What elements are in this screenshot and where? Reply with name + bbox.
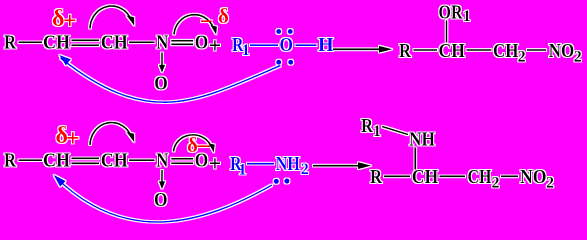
curved arrow over C=C row2	[90, 123, 131, 145]
svg-text:NH: NH	[276, 153, 300, 175]
svg-text:2: 2	[492, 175, 500, 192]
svg-text:CH: CH	[101, 32, 128, 54]
svg-text:NO: NO	[520, 166, 547, 188]
wire CH2-NO2 bond	[527, 49, 546, 51]
svg-text:+: +	[66, 126, 80, 152]
wire R-CH bond	[19, 159, 43, 161]
svg-text:N: N	[156, 150, 168, 172]
wire N=O double bond	[171, 158, 193, 160]
svg-text:2: 2	[574, 49, 582, 66]
svg-text:R: R	[399, 40, 411, 62]
wire NH-CH vertical bond	[414, 148, 416, 170]
svg-text:2: 2	[546, 175, 554, 192]
svg-text:+: +	[209, 33, 222, 58]
svg-text:CH: CH	[43, 150, 70, 172]
svg-text:O: O	[280, 34, 294, 56]
svg-text:1: 1	[242, 42, 250, 59]
wire R1-N bond	[247, 163, 274, 165]
svg-text:δ: δ	[187, 133, 198, 157]
arrow N to lower O	[161, 53, 163, 68]
reaction arrow row1	[333, 48, 381, 50]
svg-text:N: N	[156, 32, 168, 54]
svg-text:CH: CH	[468, 166, 492, 188]
svg-text:δ: δ	[218, 4, 229, 28]
lone pair dots below N	[274, 179, 279, 184]
wire R-CH bond	[19, 41, 43, 43]
wire O-H bond	[296, 44, 317, 46]
curved arrow over N=O row1	[174, 15, 213, 35]
svg-text:+: +	[209, 151, 222, 176]
minus-delta label row1	[201, 20, 212, 22]
svg-text:OR: OR	[439, 2, 463, 24]
wire CH-N bond	[129, 41, 155, 43]
wire CH-CH2 bond	[440, 175, 466, 177]
delta+ label row2	[56, 123, 80, 152]
svg-text:NO: NO	[549, 40, 575, 62]
delta+ label row1	[52, 6, 77, 35]
svg-text:1: 1	[373, 123, 381, 140]
long curved arrow O to beta C row1	[61, 58, 281, 102]
svg-text:R: R	[4, 32, 16, 54]
wire CH-CH2 bond	[467, 49, 492, 51]
svg-text:R: R	[361, 115, 373, 137]
svg-text:R: R	[370, 166, 382, 188]
wire N=O double bond	[171, 40, 193, 42]
svg-text:+: +	[63, 9, 77, 35]
lone pair dots above O	[276, 29, 281, 34]
lone pair dots below O	[276, 60, 281, 65]
wire R-CH bond	[414, 49, 438, 51]
wire CH2-NO2 bond	[501, 175, 518, 177]
svg-text:H: H	[318, 34, 334, 56]
wire C=C double bond	[72, 39, 100, 41]
svg-text:2: 2	[301, 161, 309, 178]
svg-text:O: O	[154, 189, 168, 211]
wire CH-N bond	[129, 159, 155, 161]
curved arrow over N=O row2	[174, 135, 211, 152]
svg-text:2: 2	[518, 49, 526, 66]
reaction arrow row2	[313, 165, 360, 167]
svg-text:CH: CH	[412, 166, 439, 188]
svg-text:CH: CH	[439, 40, 466, 62]
wire R-CH bond	[384, 175, 410, 177]
wire C=C double bond	[72, 157, 100, 159]
svg-text:1: 1	[238, 162, 246, 179]
svg-text:1: 1	[463, 8, 471, 25]
svg-text:CH: CH	[101, 150, 128, 172]
svg-text:CH: CH	[493, 40, 519, 62]
svg-text:NH: NH	[409, 129, 435, 151]
long curved arrow N to beta C row2	[57, 179, 272, 223]
svg-text:CH: CH	[43, 32, 70, 54]
wire O-CH vertical bond	[446, 21, 448, 43]
wire R1-O bond	[250, 44, 278, 46]
svg-text:O: O	[195, 32, 209, 54]
svg-text:R: R	[4, 150, 16, 172]
curved arrow over C=C row1	[90, 6, 131, 28]
arrow N to lower O	[161, 170, 163, 184]
wire R1-NH diagonal bond	[382, 127, 408, 135]
svg-text:O: O	[154, 73, 168, 95]
